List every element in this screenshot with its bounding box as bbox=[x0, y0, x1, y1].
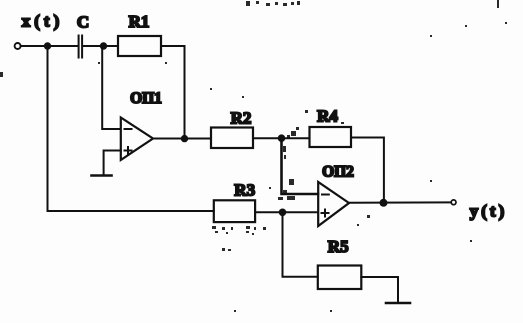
resistor R1 bbox=[118, 36, 161, 56]
wire U2 output to terminal bbox=[349, 201, 451, 203]
wire node B to R1 bbox=[104, 45, 119, 47]
terminal output bbox=[451, 200, 456, 205]
wire node B down to op-amp inverting input bbox=[102, 46, 120, 129]
node B junction bbox=[100, 42, 107, 49]
ground bbox=[92, 174, 112, 177]
resistor R2 bbox=[211, 128, 253, 149]
svg-text:x(t): x(t) bbox=[22, 12, 63, 31]
svg-text:ОП2: ОП2 bbox=[322, 164, 354, 181]
svg-text:y(t): y(t) bbox=[470, 201, 507, 220]
node F junction bbox=[380, 199, 388, 207]
svg-text:R5: R5 bbox=[328, 237, 349, 256]
op-amp U2 bbox=[318, 182, 349, 226]
wire op-amp U1 non-inverting input to ground bbox=[104, 151, 121, 175]
node E junction bbox=[279, 209, 287, 217]
svg-text:R1: R1 bbox=[129, 12, 150, 31]
wire R1 to node C bbox=[161, 46, 185, 139]
wire capacitor to node B bbox=[84, 45, 104, 47]
op-amp U1 bbox=[121, 118, 153, 161]
svg-text:R4: R4 bbox=[317, 106, 338, 125]
ground bbox=[386, 302, 410, 305]
wire R5 to ground bbox=[361, 277, 398, 302]
wire node E down to R5 bbox=[283, 212, 318, 276]
wire R2 to R4 bbox=[253, 137, 310, 139]
svg-text:R3: R3 bbox=[234, 180, 255, 199]
resistor R4 bbox=[310, 127, 352, 147]
svg-text:R2: R2 bbox=[231, 109, 252, 128]
resistor R3 bbox=[214, 200, 255, 222]
wire input to node A bbox=[21, 45, 48, 47]
wire U1 output to R2 bbox=[153, 138, 211, 140]
node C junction bbox=[181, 135, 188, 142]
svg-text:C: C bbox=[77, 12, 89, 31]
wire node A to capacitor bbox=[48, 45, 78, 47]
resistor R5 bbox=[318, 266, 362, 290]
capacitor C bbox=[79, 36, 83, 58]
wire R4 to output node bbox=[351, 138, 384, 203]
wire R3 to U2 non-inverting input bbox=[255, 211, 318, 213]
node A junction bbox=[44, 42, 51, 49]
wire node A rail to R3 bbox=[48, 46, 214, 211]
terminal input bbox=[15, 43, 21, 49]
svg-text:ОП1: ОП1 bbox=[130, 90, 162, 107]
node D junction bbox=[278, 134, 286, 142]
wire node D to op-amp U2 inverting input bbox=[282, 138, 319, 194]
